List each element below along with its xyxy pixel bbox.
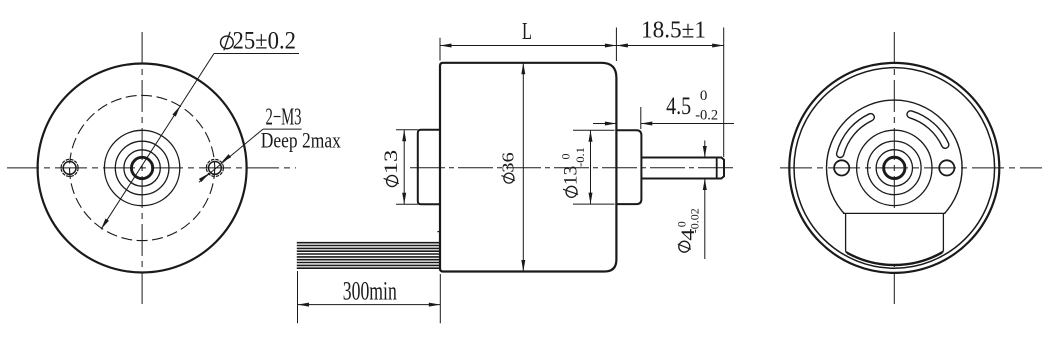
dim phi4 bottom segment: [704, 179, 706, 260]
wire cover bottom arc thin: [847, 253, 943, 266]
dim phi13 rear: line: [590, 130, 592, 204]
svg-text:36: 36: [499, 152, 518, 173]
mounting hole left (M3): [63, 162, 76, 175]
dim line 18.5: [616, 45, 723, 47]
arrowhead phi25 lower: [99, 219, 109, 231]
dim line L: [440, 45, 616, 47]
phi13 front ext top: [396, 129, 418, 131]
shaft phi4: [641, 158, 724, 179]
front boss phi13: [418, 130, 441, 205]
dim phi13 front: line: [403, 130, 405, 205]
svg-text:300min: 300min: [343, 277, 397, 306]
arrowhead opposite at hole: [199, 172, 210, 182]
rear shaft thick ring: [884, 157, 905, 178]
vent slot right: [911, 114, 946, 144]
svg-text:L: L: [522, 19, 532, 45]
centerline horizontal (right view): [780, 167, 1042, 169]
motor body side outline: [440, 63, 616, 272]
arrowhead phi13 rear top: [589, 130, 593, 142]
wire cover left side: [845, 213, 847, 251]
dim phi4 top segment: [704, 141, 706, 158]
dim 300min ext left: [297, 271, 299, 323]
arrowhead L left: [440, 44, 452, 48]
label phi13 rear with tolerance (rotated): [559, 147, 588, 197]
underline phi25: [214, 53, 299, 55]
svg-text:13: 13: [561, 166, 582, 186]
hub circle r37.7: [104, 130, 179, 205]
shaft chamfer line: [716, 158, 718, 179]
shaft hole thick ring: [131, 157, 152, 178]
dim phi36 line: [522, 63, 524, 272]
arrowhead phi36 top: [521, 63, 525, 75]
dim extension line shared (body right): [615, 28, 617, 62]
arrowhead phi36 bottom: [521, 260, 525, 272]
centerline vertical (left view): [141, 32, 143, 305]
label phi25+-0.2: [221, 28, 296, 55]
rear boss phi13: [615, 130, 641, 204]
mounting hole right (M3): [209, 162, 222, 175]
dim extension line far right (shaft end): [723, 28, 725, 158]
arrowhead 18.5 left: [616, 44, 628, 48]
rear inner rim circle: [794, 68, 995, 269]
label phi13 front (rotated): [381, 150, 402, 187]
arrowhead phi13 rear bottom: [589, 193, 593, 205]
arrowhead phi4 bottom: [703, 179, 707, 191]
arrowhead 4.5 left: [605, 122, 617, 126]
step tick on body left edge: [437, 231, 440, 233]
dim L extension line left: [439, 38, 441, 61]
dim 4.5 extension line: [640, 107, 642, 129]
lead wires (10 lines): [297, 243, 440, 269]
dim 4.5 right tail: [641, 123, 734, 125]
svg-text:4.5: 4.5: [666, 93, 691, 120]
svg-text:-0.02: -0.02: [688, 208, 702, 233]
svg-text:-0.1: -0.1: [573, 147, 587, 167]
hub circle r26.8: [115, 141, 169, 195]
rear hub circle r37.7: [857, 130, 932, 205]
wire cover right side: [942, 213, 944, 251]
arrowhead 4.5 right: [641, 122, 653, 126]
vent slot left: [840, 117, 871, 154]
rear small hole right: [939, 160, 954, 175]
dim 300min ext right: [439, 274, 441, 323]
rear hub circle r18.2: [876, 150, 912, 186]
dim line 300min: [298, 304, 441, 306]
wire cover bottom arc thick: [846, 251, 944, 264]
centerline middle view: [410, 167, 734, 169]
label phi36 (rotated): [499, 152, 518, 183]
hub circle r18.2: [124, 150, 160, 186]
svg-text:25±0.2: 25±0.2: [233, 28, 297, 55]
svg-text:0: 0: [700, 88, 708, 104]
arrowhead phi13 front bottom: [402, 193, 406, 205]
bolt circle phi25 (dashed): [70, 95, 215, 240]
motor body outer circle (front view): [38, 64, 247, 273]
svg-text:0: 0: [559, 154, 573, 160]
leader line phi25: [101, 54, 214, 230]
arrowhead phi4 top: [703, 146, 707, 158]
svg-text:Deep 2max: Deep 2max: [261, 127, 341, 152]
label phi4 with tolerance (rotated): [675, 208, 702, 252]
arrowhead 18.5 right: [712, 44, 724, 48]
svg-text:-0.2: -0.2: [695, 107, 718, 123]
arrowhead 300min right: [429, 303, 441, 307]
arrowhead phi13 front top: [402, 130, 406, 142]
arrowhead 300min left: [298, 303, 310, 307]
centerline vertical (right view): [893, 32, 895, 308]
rear outer circle: [789, 63, 999, 273]
endbell plate circle: [827, 100, 963, 236]
arrowhead L right: [605, 44, 617, 48]
arrowhead 2-M3 at hole: [220, 154, 231, 164]
rear small hole left: [834, 160, 849, 175]
arrowhead phi25 upper: [172, 105, 182, 117]
phi13 rear ext top: [573, 129, 615, 131]
svg-text:13: 13: [381, 150, 402, 175]
dim 4.5 left tail: [593, 123, 616, 125]
underline 2-M3: [263, 128, 302, 130]
phi13 rear ext bottom: [573, 203, 615, 205]
leader line 2-M3: [199, 129, 263, 182]
phi13 front ext bottom: [396, 203, 418, 205]
svg-text:0: 0: [675, 221, 689, 227]
wire cover top chord: [843, 212, 946, 214]
svg-text:18.5±1: 18.5±1: [641, 17, 706, 44]
rear hub circle r26.8: [868, 141, 922, 195]
centerline horizontal (left view): [7, 167, 296, 169]
wire cover box (masks plate bottom): [843, 213, 946, 264]
